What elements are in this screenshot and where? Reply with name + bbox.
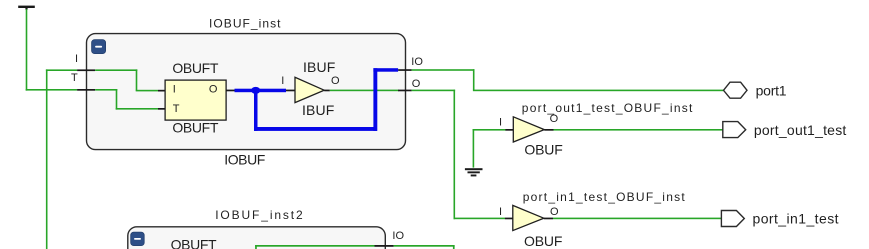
- wire: IBUF output green to O border pin: [330, 90, 399, 92]
- svg-text:port1: port1: [756, 82, 787, 98]
- svg-text:O: O: [209, 84, 218, 96]
- pin stub O (block1 right border): [398, 90, 412, 92]
- wire: IO net to port1 (staircase): [412, 69, 724, 91]
- svg-text:IOBUF_inst2: IOBUF_inst2: [215, 208, 303, 222]
- wire blue: to IO pin stub: [373, 68, 398, 72]
- svg-text:O: O: [331, 75, 340, 87]
- OBUFT cell box: [165, 80, 226, 120]
- wire blue: bottom run: [254, 127, 377, 131]
- svg-text:I: I: [281, 75, 284, 87]
- wire blue: junction down: [254, 90, 258, 130]
- wire: O net down to OBUF2 input: [412, 90, 505, 220]
- svg-text:IOBUF: IOBUF: [224, 151, 265, 167]
- svg-text:I: I: [173, 84, 176, 96]
- net obuft_o (selected, blue): OBUFT.O to IBUF.I: [235, 89, 287, 93]
- block IOBUF_inst (outline): [87, 34, 406, 150]
- IBUF output black stub: [324, 90, 330, 92]
- port_in1_test pentagon (output port): [721, 211, 744, 227]
- svg-text:OBUF: OBUF: [524, 142, 562, 158]
- OBUF1 output stub: [544, 129, 553, 131]
- pin stub OBUFT I: [158, 90, 166, 92]
- wire: block2 internal IO net: [255, 245, 374, 249]
- wire: OBUF1 out to port_out1_test: [554, 129, 723, 131]
- svg-text:T: T: [173, 103, 180, 115]
- block IOBUF_inst2 (outline, clipped at bottom): [128, 227, 386, 249]
- svg-text:port_out1_test: port_out1_test: [754, 122, 847, 138]
- wire: OBUF2 out to port_in1_test: [553, 218, 721, 220]
- pin stub IO (block1 right border): [398, 69, 412, 71]
- svg-text:OBUFT: OBUFT: [171, 236, 217, 249]
- OBUF2 output stub: [544, 218, 553, 220]
- svg-text:port_in1_test: port_in1_test: [753, 211, 839, 227]
- wire: inside T-net (steps down to OBUFT T): [95, 89, 158, 110]
- svg-text:IO: IO: [411, 56, 423, 68]
- pin stub OBUFT T: [158, 108, 166, 110]
- port_out1_test pentagon (output port): [723, 122, 746, 138]
- wire: I-net vertical (long, to bottom edge): [46, 69, 48, 249]
- pin stub OBUFT O: [226, 90, 234, 92]
- OBUF2 input black stub: [505, 218, 513, 220]
- op OBUF2 triangle: [513, 205, 544, 230]
- wire: T-net horizontal into block1 T pin: [26, 89, 77, 91]
- pin stub I (block1 left border): [77, 69, 95, 71]
- svg-text:port_out1_test_OBUF_inst: port_out1_test_OBUF_inst: [522, 101, 693, 115]
- svg-text:OBUFT: OBUFT: [172, 60, 218, 76]
- collapse button block1: [92, 40, 106, 54]
- svg-text:I: I: [75, 53, 78, 65]
- ground net wire: [473, 129, 506, 168]
- svg-text:O: O: [412, 78, 421, 90]
- IBUF triangle: [295, 77, 324, 102]
- wire: inside I-net (steps down to OBUFT I): [95, 69, 158, 91]
- pin stub IO (block2 right border): [375, 245, 394, 247]
- svg-text:IBUF: IBUF: [302, 102, 334, 118]
- svg-text:IO: IO: [392, 230, 404, 242]
- svg-text:port_in1_test_OBUF_inst: port_in1_test_OBUF_inst: [523, 190, 686, 204]
- svg-text:O: O: [550, 206, 559, 218]
- svg-text:OBUF: OBUF: [524, 233, 562, 249]
- svg-text:IOBUF_inst: IOBUF_inst: [209, 16, 281, 30]
- wire: I-net horizontal into block1 I pin: [46, 69, 77, 71]
- ground symbol: [465, 168, 483, 176]
- pin stub T (block1 left border): [77, 89, 95, 91]
- power symbol (top-left supply tie): [18, 6, 35, 10]
- svg-text:T: T: [71, 72, 78, 84]
- svg-text:IBUF: IBUF: [303, 59, 335, 75]
- svg-text:I: I: [499, 117, 502, 129]
- wire: block2 IO net external: [394, 245, 455, 249]
- port1 hexagon (inout port): [724, 82, 748, 98]
- wire: power vertical to T-net: [26, 9, 28, 90]
- svg-text:I: I: [499, 206, 502, 218]
- svg-text:OBUFT: OBUFT: [172, 120, 218, 136]
- op OBUF1 triangle: [513, 117, 544, 142]
- junction dot (blue): [251, 87, 260, 94]
- wire blue: up to IO row: [373, 68, 377, 131]
- IBUF input black stub: [286, 90, 295, 92]
- svg-text:O: O: [550, 113, 559, 125]
- OBUF1 input black stub: [505, 129, 513, 131]
- collapse button block2: [131, 232, 145, 246]
